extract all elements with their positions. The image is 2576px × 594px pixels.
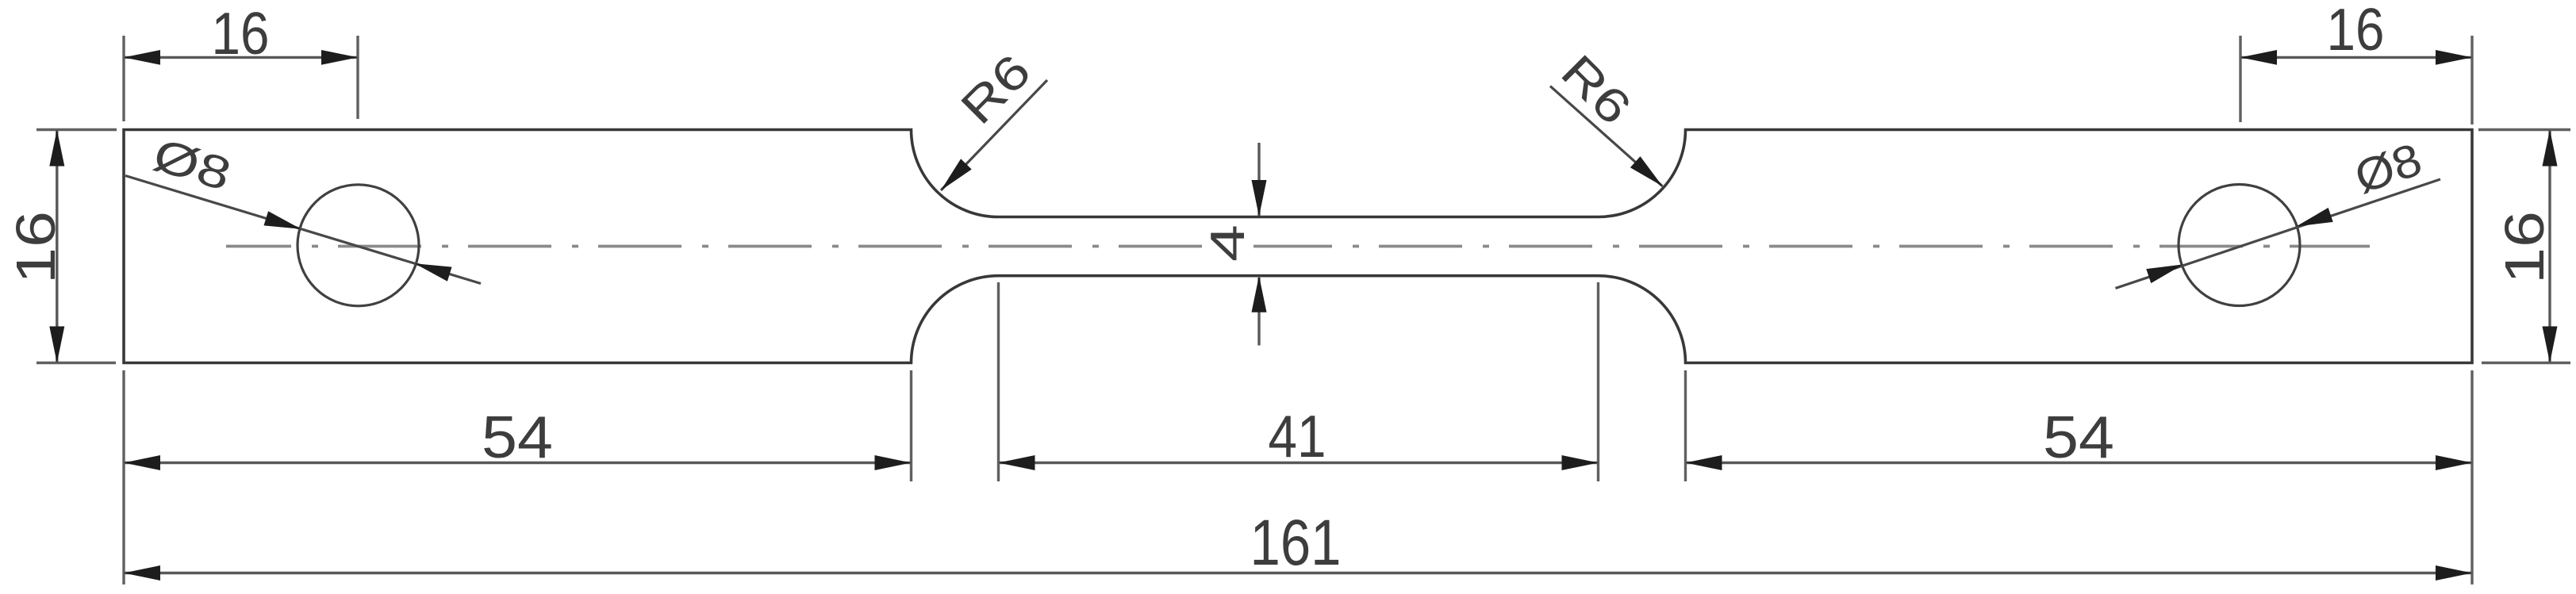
dim 54 right [1687, 462, 2472, 464]
dim 41 arrows [999, 455, 1035, 470]
bottom vertical extensions [122, 370, 125, 584]
dim 16 right vertical arrows [2543, 130, 2558, 167]
dia8 left leader arrows [264, 211, 301, 229]
dim 4 vertical segments [1257, 143, 1260, 216]
hole right [2179, 185, 2300, 306]
dim 54 left [125, 462, 911, 464]
top-left 16 dim extensions [122, 36, 125, 121]
centerline (horizontal dash-dot axis) [226, 245, 2370, 248]
leader dia8 right [2116, 179, 2441, 289]
top-right 16 dim extensions [2239, 36, 2241, 122]
leader dia8 left [125, 176, 481, 284]
dim 16 top-right [2241, 56, 2471, 59]
svg-text:16: 16 [2327, 0, 2385, 63]
dim 16 right vertical [2548, 131, 2551, 362]
dim 161 [125, 572, 2471, 574]
right 16 dim extensions [2478, 128, 2570, 131]
R6 right leader arrow [1630, 156, 1663, 186]
dim 161 arrows [124, 565, 160, 581]
dim 41 [1000, 462, 1598, 464]
svg-text:54: 54 [482, 404, 553, 470]
dim 54 right arrows [1686, 455, 1722, 470]
dim 16 top-left [125, 56, 357, 59]
leader R6 right [1550, 86, 1663, 186]
svg-text:16: 16 [2493, 211, 2555, 284]
R6 left leader arrow [941, 159, 972, 190]
dim 16 top-left arrows [124, 50, 160, 65]
svg-text:16: 16 [212, 0, 270, 67]
dim 4 arrows [1252, 180, 1267, 217]
specimen outline (dog-bone tensile specimen) [124, 130, 2472, 363]
svg-text:16: 16 [5, 211, 67, 284]
leader R6 left [941, 80, 1047, 190]
leader lines [125, 80, 2440, 289]
dia8 right leader arrows [2146, 264, 2183, 283]
dim 16 left vertical [56, 131, 58, 362]
left 16 dim extensions [36, 128, 117, 131]
dim 54 left arrows [124, 455, 160, 470]
gap in centerline for text 4 [1204, 235, 1253, 257]
svg-text:161: 161 [1250, 507, 1342, 579]
dim 16 top-right arrows [2240, 50, 2277, 65]
svg-text:41: 41 [1269, 403, 1326, 469]
svg-text:4: 4 [1201, 224, 1254, 262]
svg-text:54: 54 [2043, 404, 2114, 470]
dim 16 left vertical arrows [49, 130, 64, 167]
hole left [298, 185, 419, 306]
